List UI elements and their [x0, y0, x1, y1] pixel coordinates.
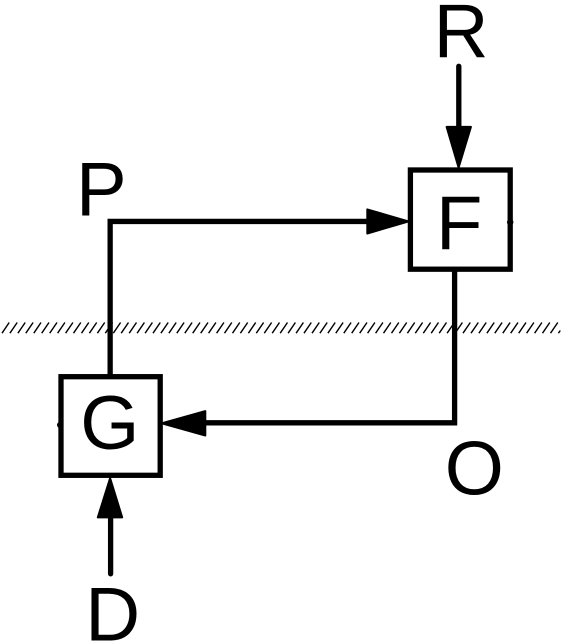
- arrowhead into F top: [447, 127, 471, 168]
- node dot on G left edge: [57, 422, 63, 428]
- svg-text:G: G: [80, 381, 139, 466]
- wire P to F (with corner): [110, 221, 368, 377]
- svg-text:R: R: [434, 0, 489, 75]
- svg-text:P: P: [76, 148, 127, 233]
- svg-text:O: O: [445, 427, 504, 512]
- hatch separator line: [2, 323, 560, 334]
- arrowhead into F left: [367, 209, 408, 233]
- box G: [61, 377, 160, 476]
- svg-text:D: D: [85, 572, 140, 644]
- node dot on F right edge: [507, 219, 513, 225]
- svg-text:F: F: [436, 181, 482, 266]
- wire F bottom to G (with corner): [206, 269, 455, 423]
- box F: [410, 170, 510, 269]
- wire D arrow: [108, 515, 113, 574]
- wire R arrow: [456, 66, 461, 130]
- arrowhead into G bottom: [98, 478, 122, 517]
- arrowhead into G right: [162, 411, 206, 435]
